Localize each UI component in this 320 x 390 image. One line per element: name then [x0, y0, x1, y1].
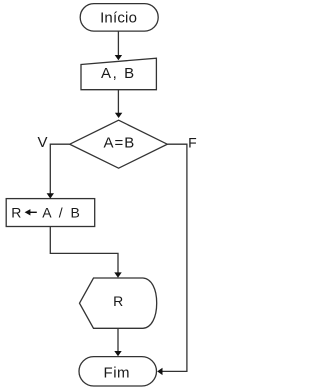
- arrowhead into rectangle: [47, 193, 54, 198]
- terminator Início: [80, 4, 158, 32]
- svg-text:R: R: [11, 205, 21, 221]
- arrowhead into A,B: [115, 55, 122, 60]
- svg-text:R: R: [113, 293, 123, 309]
- wire F branch: [163, 144, 187, 371]
- process rectangle R <- A / B: [6, 199, 95, 227]
- svg-text:V: V: [37, 134, 47, 151]
- arrowhead into Fim top: [114, 351, 121, 356]
- decision diamond A=B: [70, 120, 168, 168]
- svg-text:F: F: [188, 134, 197, 150]
- arrowhead into diamond: [115, 113, 122, 118]
- wire rectangle to display: [50, 227, 118, 273]
- wire Início to A,B: [117, 31, 119, 55]
- terminator Fim: [79, 357, 157, 386]
- manual input A,B: [81, 58, 156, 89]
- wire display to Fim: [117, 328, 119, 351]
- svg-text:A, B: A, B: [101, 65, 136, 82]
- arrowhead into display: [114, 272, 121, 277]
- svg-text:Fim: Fim: [104, 365, 131, 382]
- svg-text:Início: Início: [100, 10, 137, 27]
- assignment arrow glyph in R <- A / B: [28, 212, 37, 213]
- svg-text:A=B: A=B: [104, 134, 136, 151]
- svg-text:A / B: A / B: [42, 205, 82, 221]
- arrowhead into Fim right: [157, 368, 162, 375]
- display shape R: [80, 278, 157, 328]
- wire A,B to decision: [117, 90, 119, 113]
- wire V branch: [50, 144, 69, 193]
